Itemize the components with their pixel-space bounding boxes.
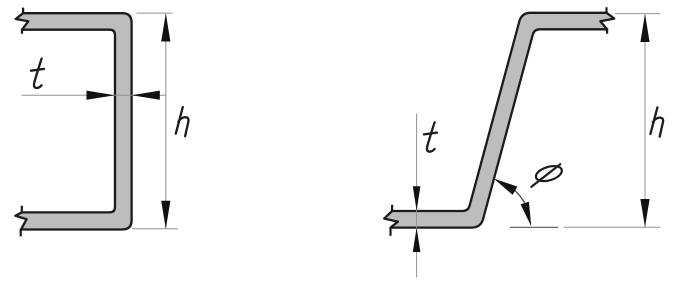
- t arrow up at flange bottom face (right): [413, 228, 421, 252]
- arc arrow to baseline: [521, 202, 532, 227]
- break ticks top flange: [22, 8, 23, 34]
- t dimension line (right): [416, 114, 418, 278]
- label t (left): [31, 59, 44, 88]
- h dimension line (right): [644, 15, 646, 228]
- h arrow up (right): [640, 14, 649, 42]
- profile band (gray fill, black outline): [15, 13, 131, 229]
- break ticks bottom flange left end: [391, 205, 393, 236]
- break ticks top flange right end: [605, 7, 608, 34]
- h dimension line (left): [165, 14, 167, 229]
- angle reference baseline: [510, 226, 558, 228]
- angle arc: [513, 189, 526, 205]
- t arrow down at flange top face (right): [413, 186, 421, 211]
- t dimension line (left): [22, 94, 167, 96]
- h bottom extension line (right): [564, 226, 661, 228]
- h arrow up (left): [161, 13, 170, 41]
- t arrow pointing left at web right face: [132, 91, 160, 100]
- break ticks bottom flange: [21, 206, 22, 237]
- h top extension line (left): [137, 12, 173, 14]
- h top extension line (right): [615, 13, 661, 15]
- label h (right): [650, 107, 663, 136]
- label t (right): [424, 122, 437, 151]
- arc arrow to web: [494, 179, 518, 195]
- h bottom extension line (left): [132, 228, 178, 230]
- h arrow down (right): [640, 199, 649, 227]
- label phi: [531, 163, 563, 187]
- profile band: [384, 13, 614, 228]
- label h (left): [176, 107, 189, 136]
- t arrow pointing right at web left face: [87, 91, 115, 100]
- h arrow down (left): [161, 201, 170, 229]
